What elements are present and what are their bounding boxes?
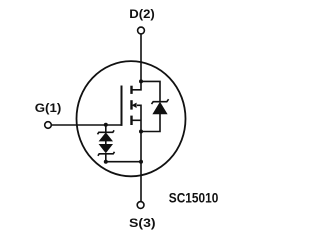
- package outline circle: [77, 61, 186, 176]
- wire source lead: [132, 119, 142, 121]
- diode D1 body zener triangle: [153, 103, 167, 114]
- transistor Q1 body arrow: [132, 103, 137, 108]
- svg-text:G(1): G(1): [35, 101, 62, 115]
- diode Z2 gate zener cathode bar: [98, 152, 115, 156]
- transistor Q1 channel bar top (drain): [130, 86, 132, 94]
- wire drain vertical from D terminal to drain corner: [132, 34, 142, 90]
- wire body lead to source rail: [137, 105, 141, 201]
- diode Z1 gate zener triangle: [99, 133, 112, 141]
- transistor Q1 channel bar bottom (source): [130, 116, 132, 125]
- node drain junction dot: [139, 79, 143, 83]
- transistor Q1 gate bar: [121, 86, 123, 126]
- node source junction dot: [139, 130, 143, 134]
- node zener bottom junction dot: [104, 160, 108, 164]
- diode Z1 gate zener cathode bar: [98, 130, 115, 134]
- svg-text:D(2): D(2): [129, 7, 155, 21]
- wire body-diode anode to source rail: [141, 114, 160, 132]
- transistor Q1 channel bar middle (body): [130, 100, 132, 109]
- diode D1 body zener cathode bar: [152, 99, 169, 104]
- wire between gate zeners: [105, 141, 107, 144]
- wire gate from G terminal to gate bar: [51, 124, 122, 126]
- diode Z2 gate zener triangle: [99, 144, 112, 152]
- terminal D pin circle: [138, 27, 145, 34]
- node source rail junction dot: [139, 160, 143, 164]
- svg-text:SC15010: SC15010: [169, 190, 219, 205]
- wire drain to body-diode cathode: [141, 81, 160, 101]
- wire zener Z2 to source return: [106, 154, 141, 162]
- terminal S pin circle: [137, 202, 144, 209]
- node gate protection junction dot: [104, 123, 108, 127]
- terminal G pin circle: [45, 122, 52, 129]
- wire gate node to zener Z1: [105, 125, 107, 133]
- svg-text:S(3): S(3): [129, 216, 156, 230]
